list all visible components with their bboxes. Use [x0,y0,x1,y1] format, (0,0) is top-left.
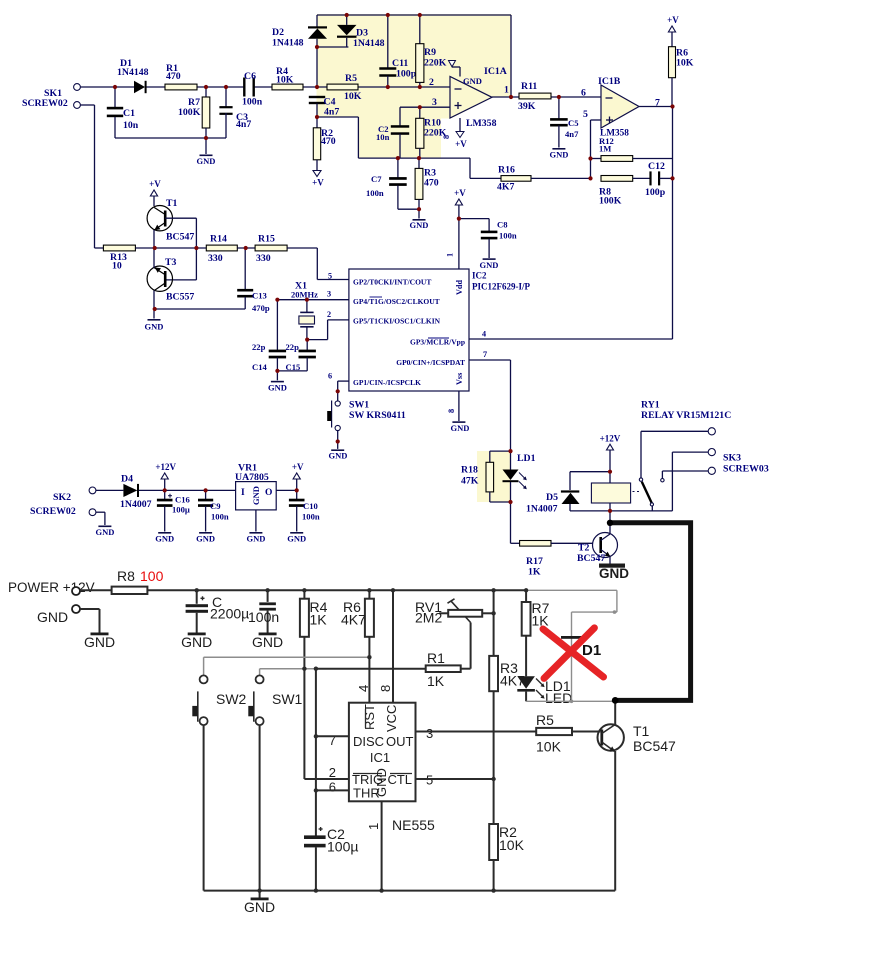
svg-text:22p: 22p [252,342,266,352]
svg-text:2200µ: 2200µ [210,606,249,622]
svg-text:1K: 1K [310,612,328,628]
svg-text:+V: +V [667,15,679,25]
svg-text:GND: GND [96,527,115,537]
svg-text:330: 330 [256,253,271,264]
svg-text:10K: 10K [536,739,562,755]
svg-text:RST: RST [362,704,377,730]
svg-text:1: 1 [366,823,381,830]
svg-text:10: 10 [112,261,122,272]
svg-text:10K: 10K [276,75,294,86]
svg-text:+V: +V [312,178,324,188]
svg-text:39K: 39K [518,101,536,112]
svg-text:10n: 10n [123,120,139,131]
svg-text:100n: 100n [211,512,229,522]
svg-text:D1: D1 [582,642,601,659]
svg-text:GND: GND [181,634,212,650]
svg-text:GND: GND [246,534,265,544]
svg-text:GND: GND [599,566,629,581]
svg-text:IC2: IC2 [472,271,487,281]
svg-text:R5: R5 [536,712,554,728]
svg-text:C13: C13 [252,291,267,301]
svg-text:100n: 100n [248,609,279,625]
svg-text:3: 3 [327,290,331,299]
svg-text:GND: GND [197,156,216,166]
svg-text:D4: D4 [121,474,133,485]
svg-text:1: 1 [504,85,509,96]
svg-text:GND: GND [37,609,68,625]
svg-text:GND: GND [84,634,115,650]
svg-text:GP5/T1CKI/OSC1/CLKIN: GP5/T1CKI/OSC1/CLKIN [353,317,441,326]
svg-text:1: 1 [446,253,455,257]
svg-text:100K: 100K [178,107,201,118]
svg-text:R9: R9 [424,47,436,58]
svg-text:GND: GND [287,534,306,544]
svg-text:T1: T1 [633,723,650,739]
svg-text:+V: +V [292,462,304,472]
svg-text:T2: T2 [578,543,590,554]
svg-text:C9: C9 [210,501,221,511]
svg-text:470p: 470p [252,303,270,313]
svg-text:GND: GND [463,76,482,86]
svg-text:470: 470 [424,178,439,189]
svg-text:UA7805: UA7805 [235,472,269,483]
svg-text:IC1B: IC1B [598,76,621,87]
svg-text:O: O [265,488,272,498]
svg-text:C8: C8 [497,220,508,230]
svg-text:SW1: SW1 [349,400,369,411]
svg-text:SCREW02: SCREW02 [30,506,76,517]
svg-text:C10: C10 [303,501,318,511]
svg-text:220K: 220K [424,128,447,139]
svg-text:D5: D5 [546,492,558,503]
svg-text:C5: C5 [568,118,579,128]
svg-text:8: 8 [378,685,393,692]
svg-text:1N4007: 1N4007 [526,504,558,515]
svg-text:Vss: Vss [455,373,464,385]
svg-text:+V: +V [454,188,466,198]
svg-text:3: 3 [432,97,437,108]
svg-text:SCREW02: SCREW02 [22,98,68,109]
svg-text:330: 330 [208,253,223,264]
svg-text:R17: R17 [526,556,543,567]
svg-text:GP1/CIN-/ICSPCLK: GP1/CIN-/ICSPCLK [353,378,421,387]
svg-text:1N4148: 1N4148 [272,38,304,49]
svg-text:8: 8 [447,409,456,413]
svg-text:SW1: SW1 [272,691,303,707]
svg-text:4K7: 4K7 [341,612,366,628]
svg-text:Vdd: Vdd [455,280,464,295]
svg-text:DISC: DISC [353,734,384,749]
svg-text:SK2: SK2 [53,492,71,503]
svg-text:1N4007: 1N4007 [120,499,152,510]
svg-text:SW2: SW2 [216,691,247,707]
svg-text:C15: C15 [286,362,301,372]
svg-text:+12V: +12V [600,434,621,444]
svg-text:IC1: IC1 [370,750,390,765]
svg-text:220K: 220K [424,58,447,69]
svg-text:3: 3 [426,726,433,741]
svg-text:C7: C7 [371,174,382,184]
svg-text:GP3/MCLR/Vpp: GP3/MCLR/Vpp [410,338,465,347]
svg-text:BC557: BC557 [166,292,194,303]
svg-text:4: 4 [356,685,371,692]
svg-text:10K: 10K [344,91,362,102]
svg-text:C16: C16 [175,495,191,505]
svg-text:VCC: VCC [384,705,399,732]
svg-text:GND: GND [252,634,283,650]
svg-text:GP0/CIN+/ICSPDAT: GP0/CIN+/ICSPDAT [396,358,465,367]
svg-text:2: 2 [329,765,336,780]
svg-text:1K: 1K [427,673,445,689]
svg-text:100p: 100p [645,187,666,198]
svg-text:C6: C6 [244,71,256,82]
svg-text:CTL: CTL [387,772,412,787]
svg-text:BC547: BC547 [577,553,605,564]
svg-text:470: 470 [321,136,336,147]
svg-text:1M: 1M [599,144,611,154]
svg-text:C14: C14 [252,362,268,372]
svg-text:GND: GND [374,768,389,797]
svg-text:R15: R15 [258,234,275,245]
svg-text:2: 2 [327,310,331,319]
svg-text:4K7: 4K7 [497,182,515,193]
svg-text:4: 4 [482,330,486,339]
svg-text:RY1: RY1 [641,400,660,411]
svg-text:GP4/T1G/OSC2/CLKOUT: GP4/T1G/OSC2/CLKOUT [353,297,440,306]
svg-text:100n: 100n [242,97,263,108]
svg-text:100n: 100n [366,188,384,198]
svg-text:T3: T3 [165,257,177,268]
svg-text:4n7: 4n7 [324,107,339,118]
svg-text:470: 470 [166,71,181,82]
svg-text:GND: GND [251,486,261,505]
svg-text:100: 100 [140,568,164,584]
svg-text:7: 7 [329,733,336,748]
svg-text:D2: D2 [272,27,284,38]
svg-text:C12: C12 [648,161,665,172]
svg-text:C11: C11 [392,58,408,69]
svg-text:GP2/T0CKI/INT/COUT: GP2/T0CKI/INT/COUT [353,278,431,287]
svg-text:1K: 1K [528,567,541,578]
svg-text:RELAY VR15M121C: RELAY VR15M121C [641,410,731,421]
svg-text:R14: R14 [210,234,227,245]
svg-text:LED: LED [545,690,572,706]
svg-text:SCREW03: SCREW03 [723,464,769,475]
svg-text:GND: GND [155,534,174,544]
svg-text:100K: 100K [599,196,622,207]
svg-text:+V: +V [149,179,161,189]
svg-text:100p: 100p [396,69,417,80]
svg-text:10n: 10n [376,132,390,142]
svg-text:D3: D3 [356,28,368,39]
svg-text:SK3: SK3 [723,453,741,464]
svg-text:R5: R5 [345,73,357,84]
svg-text:2M2: 2M2 [415,610,442,626]
svg-text:POWER +12V: POWER +12V [8,580,95,595]
svg-text:SW KRS0411: SW KRS0411 [349,410,406,421]
svg-text:BC547: BC547 [166,232,194,243]
svg-text:10K: 10K [676,58,694,69]
svg-text:100µ: 100µ [327,839,358,855]
svg-text:5: 5 [583,109,588,120]
svg-text:GND: GND [196,534,215,544]
svg-text:100n: 100n [499,231,517,241]
svg-text:10K: 10K [499,837,525,853]
svg-text:IC1A: IC1A [484,66,507,77]
svg-text:R16: R16 [498,165,515,176]
svg-text:1N4148: 1N4148 [117,67,149,78]
svg-text:GND: GND [145,322,164,332]
svg-text:T1: T1 [166,198,178,209]
svg-text:LM358: LM358 [466,118,497,129]
svg-text:PIC12F629-I/P: PIC12F629-I/P [472,282,530,292]
svg-text:GND: GND [329,451,348,461]
svg-text:100µ: 100µ [172,505,190,515]
svg-text:4n7: 4n7 [236,119,251,130]
svg-text:22p: 22p [286,342,300,352]
svg-text:GND: GND [451,423,470,433]
svg-text:+V: +V [455,139,467,149]
svg-text:C1: C1 [123,108,135,119]
svg-text:R8: R8 [117,568,135,584]
svg-text:R18: R18 [461,465,478,476]
svg-text:1K: 1K [532,613,550,629]
svg-text:I: I [241,488,245,498]
svg-text:GND: GND [268,383,287,393]
svg-text:R11: R11 [521,81,537,92]
svg-text:100n: 100n [302,512,320,522]
svg-text:+12V: +12V [155,462,176,472]
svg-text:GND: GND [410,220,429,230]
svg-text:7: 7 [483,350,487,359]
svg-text:GND: GND [550,150,569,160]
svg-text:GND: GND [244,899,275,915]
svg-text:6: 6 [329,780,336,795]
svg-text:GND: GND [480,260,499,270]
svg-text:R1: R1 [427,650,445,666]
svg-text:6: 6 [328,372,332,381]
svg-text:LD1: LD1 [517,453,536,464]
svg-text:6: 6 [581,88,586,99]
svg-text:2: 2 [429,77,434,88]
svg-text:NE555: NE555 [392,817,435,833]
svg-text:1N4148: 1N4148 [353,38,385,49]
svg-text:BC547: BC547 [633,738,676,754]
svg-text:47K: 47K [461,476,479,487]
svg-text:4n7: 4n7 [565,129,579,139]
svg-text:20MHz: 20MHz [291,290,318,300]
svg-text:OUT: OUT [386,734,414,749]
